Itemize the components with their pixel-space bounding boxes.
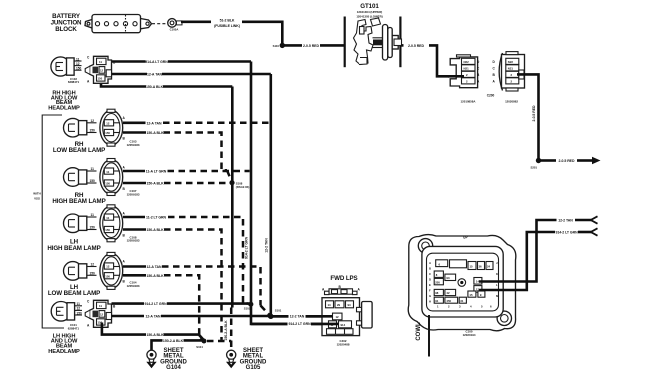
LH high beam lamp bulb <box>64 213 97 232</box>
connector C200 male half <box>450 55 480 104</box>
connector C103 (RH low beam) <box>100 109 140 147</box>
svg-text:11: 11 <box>76 57 80 61</box>
splice S108 <box>229 180 249 189</box>
svg-text:12059183: 12059183 <box>127 143 140 147</box>
svg-text:K: K <box>496 272 498 276</box>
svg-text:12: 12 <box>91 263 95 267</box>
svg-text:12-2 TAN: 12-2 TAN <box>290 314 305 318</box>
svg-text:N21: N21 <box>508 66 514 70</box>
splice S110 <box>273 43 285 48</box>
svg-text:12059183: 12059183 <box>127 284 140 288</box>
wire 2-0.5 RED to C200 <box>401 44 449 76</box>
left bracket (WITH VSS) <box>33 115 64 328</box>
svg-text:98: 98 <box>435 291 439 295</box>
svg-text:N21: N21 <box>464 66 470 70</box>
svg-text:914-2 LT GRN: 914-2 LT GRN <box>144 302 167 306</box>
wire 51-2 BLK fusible link <box>181 18 282 45</box>
LH low beam lamp bulb <box>64 262 97 281</box>
svg-text:12020862: 12020862 <box>505 100 518 104</box>
svg-text:S110: S110 <box>273 44 280 48</box>
svg-text:150-A BLK: 150-A BLK <box>146 333 164 337</box>
label LH HIGH BEAM LAMP <box>47 239 100 252</box>
svg-text:150-2-A BLK: 150-2-A BLK <box>163 339 184 343</box>
wire 914-2 LT GRN (LH headlamp) <box>112 302 250 306</box>
wire 2-0.5 RED off-page arrow <box>541 157 601 165</box>
svg-text:D: D <box>429 278 431 282</box>
svg-text:12: 12 <box>76 62 80 66</box>
svg-text:11: 11 <box>91 167 95 171</box>
svg-text:14: 14 <box>328 303 332 307</box>
connector RH headlamp (3-pin) <box>85 56 116 84</box>
svg-text:C: C <box>429 272 431 276</box>
wire 150-2-A BLK drop to G105 <box>224 308 231 351</box>
svg-text:15: 15 <box>470 265 474 269</box>
svg-text:H: H <box>429 300 431 304</box>
label RH HIGH AND LOW BEAM HEADLAMP <box>48 90 80 111</box>
svg-text:2-0.5 RED: 2-0.5 RED <box>559 159 575 163</box>
svg-text:12-A TAN: 12-A TAN <box>147 121 162 125</box>
svg-text:G104: G104 <box>166 365 181 371</box>
wire 11-2 LT GRN (LH high beam) <box>123 216 248 304</box>
svg-text:F: F <box>429 289 431 293</box>
svg-text:C200: C200 <box>487 94 495 98</box>
wire 12-2 TAN into C402 <box>268 313 333 319</box>
connector C108 (LH high beam) <box>100 205 140 243</box>
svg-text:S104: S104 <box>196 345 203 349</box>
svg-text:L: L <box>496 283 498 287</box>
COWL boundary line <box>416 315 429 357</box>
svg-text:B: B <box>429 267 431 271</box>
wire 150-A BLK (RH high beam) <box>123 182 229 186</box>
svg-text:12: 12 <box>91 119 95 123</box>
svg-text:12-A TAN: 12-A TAN <box>147 73 162 77</box>
connector C104 (LH low beam) <box>100 252 140 289</box>
svg-text:11: 11 <box>106 216 109 220</box>
svg-text:S201: S201 <box>530 166 537 170</box>
svg-text:12: 12 <box>77 307 81 311</box>
svg-text:11: 11 <box>99 60 102 64</box>
connector C107 (RH high beam) <box>100 159 140 197</box>
wire 150-2-A BLK (ground bus to G104) <box>152 338 205 350</box>
wire 2-0.5 RED entry into C200 <box>448 75 464 78</box>
svg-text:450: 450 <box>446 299 451 303</box>
bulkhead grommet GT101 <box>345 3 402 67</box>
label SHEET METAL GROUND G104 <box>160 348 187 371</box>
svg-text:12: 12 <box>336 315 340 319</box>
svg-text:150-A BLK: 150-A BLK <box>146 85 164 89</box>
svg-text:HIGH BEAM LAMP: HIGH BEAM LAMP <box>47 245 100 252</box>
wire 150-A BLK (LH low beam) <box>123 274 203 341</box>
svg-text:150: 150 <box>105 182 110 186</box>
svg-text:12020194: 12020194 <box>463 333 476 337</box>
LH high and low beam headlamp bulb C101 <box>51 302 82 322</box>
RH low beam lamp bulb <box>64 118 97 137</box>
svg-text:91: 91 <box>435 299 439 303</box>
svg-text:LOW BEAM LAMP: LOW BEAM LAMP <box>53 147 105 154</box>
svg-text:15: 15 <box>469 293 473 297</box>
svg-text:6288471: 6288471 <box>68 327 80 331</box>
label RH LOW BEAM LAMP <box>53 141 105 154</box>
svg-text:12-A TAN: 12-A TAN <box>147 265 162 269</box>
wire 914-2 LT GRN into C402 <box>251 321 339 327</box>
label SHEET METAL GROUND G105 <box>240 348 267 371</box>
svg-text:150-A BLK: 150-A BLK <box>146 228 164 232</box>
svg-text:HEADLAMP: HEADLAMP <box>48 349 80 355</box>
svg-text:11: 11 <box>91 213 95 217</box>
svg-text:150-2-A BLK: 150-2-A BLK <box>224 320 228 341</box>
ground G105 <box>226 350 236 368</box>
wire 2-0.5 RED to GT101 <box>285 44 345 48</box>
wire 150-A BLK (LH high beam) <box>123 228 222 340</box>
wire 150-A BLK (LH headlamp ground run) <box>102 323 205 342</box>
svg-text:150: 150 <box>105 131 110 135</box>
svg-text:FWD LPS: FWD LPS <box>330 275 357 282</box>
svg-text:2-0.5 RED: 2-0.5 RED <box>303 44 319 48</box>
svg-text:42: 42 <box>446 291 450 295</box>
svg-text:150: 150 <box>90 179 96 183</box>
wire 150-A BLK (RH headlamp ground + bus) <box>101 81 232 308</box>
svg-text:914-2 LT GRN: 914-2 LT GRN <box>555 231 578 235</box>
connector C200 female half <box>493 52 525 104</box>
wire 12-A TAN (LH low beam) <box>123 265 269 315</box>
label LH HIGH AND LOW BEAM HEADLAMP <box>48 334 80 356</box>
wire 11-A LT GRN (RH high beam) <box>123 170 250 174</box>
svg-text:GT101: GT101 <box>360 3 379 10</box>
svg-text:HIGH BEAM LAMP: HIGH BEAM LAMP <box>52 198 105 205</box>
bulkhead connector C100 <box>408 235 516 337</box>
RH high beam lamp bulb <box>64 167 97 186</box>
svg-text:12-2 TAN: 12-2 TAN <box>265 238 269 253</box>
svg-text:WITH: WITH <box>33 192 40 196</box>
wire 2-0.5 RED from C200 to S201 <box>517 74 539 158</box>
svg-text:150-A BLK: 150-A BLK <box>146 131 164 135</box>
svg-text:93: 93 <box>446 276 450 280</box>
splice S104 <box>196 339 206 349</box>
svg-text:14: 14 <box>476 280 480 284</box>
wire 12-A TAN (LH headlamp) <box>112 315 269 319</box>
svg-text:12: 12 <box>106 265 110 269</box>
svg-text:12: 12 <box>100 313 104 317</box>
label LH LOW BEAM LAMP <box>48 284 100 297</box>
svg-text:(FUSIBLE LINK): (FUSIBLE LINK) <box>214 24 240 28</box>
svg-text:(PAGE 84): (PAGE 84) <box>236 185 250 189</box>
splice S201 <box>530 158 541 170</box>
connector C402 (FWD LPS) <box>322 285 372 346</box>
svg-text:914-2 LT GRN: 914-2 LT GRN <box>245 236 249 259</box>
wire 914-A LT GRN (RH headlamp feed + bus to FWD LPS) <box>112 60 334 324</box>
svg-text:11: 11 <box>106 170 109 174</box>
svg-text:11-2 LT GRN: 11-2 LT GRN <box>146 216 167 220</box>
svg-text:S101: S101 <box>275 309 282 313</box>
svg-text:150: 150 <box>76 67 82 71</box>
svg-text:COWL: COWL <box>416 322 422 341</box>
svg-text:914-A LT GRN: 914-A LT GRN <box>145 60 168 64</box>
svg-text:G: G <box>429 294 431 298</box>
wire 12-A TAN (RH low beam) <box>123 121 270 125</box>
wire 914-2 LT GRN (off page into C100) <box>479 228 598 290</box>
svg-text:150: 150 <box>90 226 96 230</box>
splice S101 <box>268 309 282 319</box>
connector C100A (ring terminal) <box>152 19 182 32</box>
connector LH headlamp (3-pin) <box>68 300 116 331</box>
svg-text:12059183: 12059183 <box>127 192 140 196</box>
svg-text:914-2 LT GRN: 914-2 LT GRN <box>288 322 311 326</box>
svg-text:11-A LT GRN: 11-A LT GRN <box>146 170 167 174</box>
wire 12-A TAN (RH headlamp + bus to FWD LPS) <box>112 73 333 317</box>
svg-text:31: 31 <box>460 299 464 303</box>
svg-text:12: 12 <box>106 122 110 126</box>
svg-text:C100A: C100A <box>170 28 179 32</box>
svg-text:150: 150 <box>90 272 96 276</box>
svg-text:914: 914 <box>341 323 346 327</box>
svg-text:12010858A: 12010858A <box>461 100 477 104</box>
svg-text:S102: S102 <box>244 307 251 311</box>
svg-text:24: 24 <box>487 265 491 269</box>
svg-text:150: 150 <box>105 228 110 232</box>
svg-text:150: 150 <box>90 129 96 133</box>
svg-text:12: 12 <box>100 69 104 73</box>
battery junction block <box>51 13 152 33</box>
svg-text:A: A <box>429 261 431 265</box>
svg-text:HEADLAMP: HEADLAMP <box>48 105 80 111</box>
svg-text:250: 250 <box>435 280 440 284</box>
wire dashed ground bus to G105 <box>207 340 231 343</box>
svg-text:11: 11 <box>99 304 102 308</box>
svg-text:150: 150 <box>77 311 83 315</box>
svg-text:E: E <box>429 283 431 287</box>
svg-text:12020488: 12020488 <box>337 342 350 346</box>
svg-text:VSS: VSS <box>34 197 40 201</box>
wire 12-2 TAN (off page into C100) <box>479 216 598 281</box>
svg-text:N22: N22 <box>508 60 514 64</box>
svg-text:150: 150 <box>98 77 103 81</box>
svg-text:N22: N22 <box>464 60 470 64</box>
svg-text:LOW BEAM LAMP: LOW BEAM LAMP <box>48 290 100 297</box>
svg-text:11: 11 <box>77 302 81 306</box>
svg-text:29: 29 <box>337 303 341 307</box>
RH high and low beam headlamp bulb C102 <box>51 57 82 84</box>
svg-text:36: 36 <box>479 265 483 269</box>
svg-text:150-A BLK: 150-A BLK <box>146 182 164 186</box>
ground G104 <box>146 350 156 368</box>
svg-text:12-A TAN: 12-A TAN <box>146 315 161 319</box>
svg-text:12-2 TAN: 12-2 TAN <box>558 219 573 223</box>
svg-text:150: 150 <box>105 274 110 278</box>
wire 150-A BLK (RH low beam) <box>123 131 231 181</box>
svg-text:BLOCK: BLOCK <box>55 26 77 33</box>
svg-text:12059183: 12059183 <box>127 239 140 243</box>
svg-text:2-0.5 RED: 2-0.5 RED <box>532 105 536 121</box>
svg-text:G105: G105 <box>246 365 261 371</box>
label RH HIGH BEAM LAMP <box>52 192 105 205</box>
svg-text:12041304 (UPPER): 12041304 (UPPER) <box>357 10 383 14</box>
svg-text:2-0.5 RED: 2-0.5 RED <box>408 44 424 48</box>
svg-text:94: 94 <box>348 303 352 307</box>
svg-text:150-A BLK: 150-A BLK <box>146 274 164 278</box>
splice S102 <box>244 302 254 311</box>
svg-text:6288471: 6288471 <box>68 80 80 84</box>
svg-text:51-2 BLK: 51-2 BLK <box>220 18 235 22</box>
